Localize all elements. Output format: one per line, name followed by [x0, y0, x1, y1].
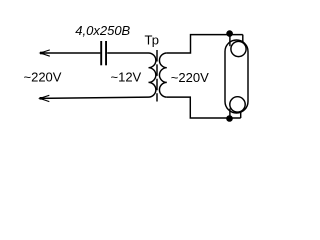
lamp bottom pin left: [229, 109, 231, 119]
svg-text:~220V: ~220V: [24, 70, 62, 85]
junction dot bottom: [226, 115, 233, 122]
svg-text:Тр: Тр: [145, 33, 159, 48]
transformer Tr secondary winding (right, 3 bumps): [159, 53, 166, 97]
transformer Tr core (dashed): [156, 50, 158, 102]
lamp top pin left: [229, 35, 231, 47]
svg-text:~12V: ~12V: [111, 70, 142, 85]
arrow head bottom mains: [40, 95, 50, 101]
lamp top electrode circle: [231, 41, 246, 56]
capacitor C1 plate left: [100, 41, 102, 65]
wire bottom-left mains line: [40, 97, 149, 98]
svg-text:4,0x250В: 4,0x250В: [75, 23, 130, 38]
arrow head top mains: [40, 50, 50, 56]
transformer Tr primary winding (left, 3 bumps): [149, 53, 156, 97]
svg-text:~220V: ~220V: [171, 70, 209, 85]
wire top-left mains line: [41, 52, 101, 54]
capacitor C1 plate right: [105, 41, 107, 65]
wire secondary top to lamp top: [167, 35, 243, 53]
lamp top pin right: [242, 35, 244, 43]
lamp bottom electrode circle: [230, 97, 245, 112]
lamp bottom pin right: [240, 111, 242, 118]
junction dot top: [226, 30, 233, 37]
wire secondary bottom to lamp bottom: [167, 97, 241, 118]
wire from capacitor to transformer primary top: [107, 52, 148, 54]
lamp EL1 tube envelope: [225, 40, 248, 113]
